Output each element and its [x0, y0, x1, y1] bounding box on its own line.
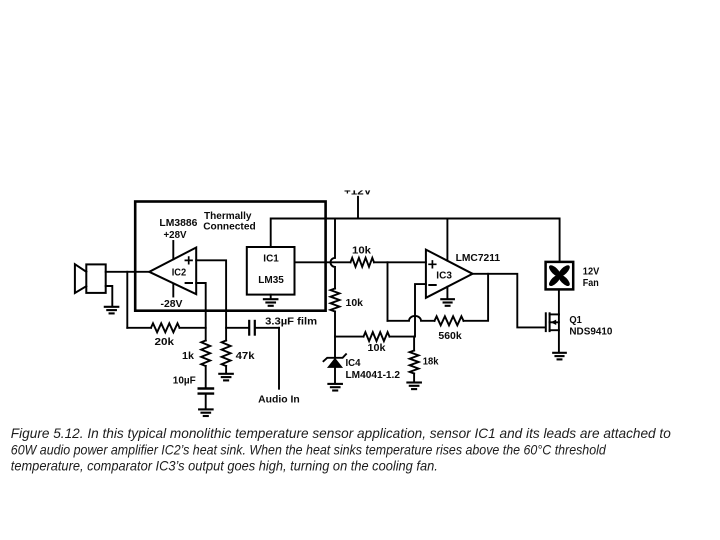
svg-text:+28V: +28V [164, 230, 187, 241]
12V fan (boxed motor) [546, 262, 574, 290]
ground (IC3) [441, 298, 454, 300]
resistor 18k [413, 337, 415, 351]
IC2 - input marker [186, 282, 192, 284]
svg-text:10µF: 10µF [173, 375, 196, 386]
svg-text:Thermally: Thermally [204, 211, 252, 222]
IC3 + input marker [429, 261, 436, 268]
svg-text:Q1: Q1 [569, 315, 582, 326]
svg-text:LM4041-1.2: LM4041-1.2 [346, 370, 401, 381]
wire: speaker to ground [106, 286, 113, 306]
svg-text:560k: 560k [438, 331, 462, 342]
svg-text:Fan: Fan [583, 278, 599, 289]
svg-text:IC4: IC4 [346, 358, 361, 369]
svg-text:NDS9410: NDS9410 [569, 326, 612, 337]
op-amp IC2 (LM3886 power amplifier) [149, 248, 196, 295]
temperature sensor IC1 (LM35) [247, 247, 295, 295]
+12V supply stub [357, 197, 359, 219]
wire: IC3 V- to ground [446, 287, 448, 299]
svg-text:Figure 5.12. In this typical m: Figure 5.12. In this typical monolithic … [11, 426, 671, 441]
svg-text:LM3886: LM3886 [159, 218, 197, 229]
resistor 10k (sensor signal) [351, 258, 375, 267]
svg-text:Audio In: Audio In [258, 395, 300, 406]
+28V supply stub [172, 241, 174, 259]
wire: IC2 - input down to feedback node [196, 283, 206, 341]
ground (IC4) [328, 383, 342, 385]
svg-text:20k: 20k [155, 337, 175, 348]
resistor 47k [222, 341, 231, 367]
capacitor 10uF [199, 387, 213, 389]
zener reference IC4 (LM4041-1.2) [334, 337, 336, 358]
svg-text:18k: 18k [423, 356, 439, 367]
svg-text:temperature, comparator IC3’s: temperature, comparator IC3’s output goe… [11, 458, 438, 473]
+12V net label (clipped at scan top edge) [344, 186, 372, 197]
ground (18k) [407, 381, 421, 383]
wire: IC3 V+ from rail [446, 219, 448, 261]
wire: output feedback tap down to 20k [126, 272, 128, 328]
svg-text:10k: 10k [352, 245, 371, 256]
resistor 10k (pull-up from +12V rail) [331, 219, 336, 289]
speaker LS1 [86, 264, 105, 293]
svg-text:LMC7211: LMC7211 [456, 253, 501, 264]
wire: IC2 + input down to bias node [196, 260, 226, 340]
wire: IC1 output to sensor resistor [295, 261, 351, 263]
resistor 560k (hysteresis) with hop over - input wire [388, 316, 435, 321]
node: Audio In [278, 328, 280, 389]
wire: IC3 output to MOSFET gate [473, 274, 545, 328]
svg-text:IC2: IC2 [172, 267, 187, 278]
IC3 - input marker [429, 284, 435, 286]
svg-text:LM35: LM35 [258, 275, 284, 286]
ground (47k) [219, 373, 233, 375]
-28V supply stub [172, 284, 174, 296]
svg-text:Connected: Connected [203, 222, 256, 233]
ground (Q1 source) [553, 352, 566, 354]
wire: +12V rail (from IC1 V+ pin across the top, down to fan) [271, 219, 560, 261]
wire: 10k to IC3 + input [374, 261, 426, 263]
wire: hysteresis tap down to 560k [387, 262, 389, 321]
resistor 10k (reference divider) [364, 332, 390, 341]
ground (10uF) [199, 408, 213, 410]
IC2 + input marker [185, 257, 192, 264]
thermal enclosure box [135, 202, 325, 311]
wire: comparator - input to reference divider [415, 284, 426, 337]
svg-text:IC1: IC1 [263, 253, 279, 264]
svg-text:10k: 10k [368, 343, 386, 354]
comparator IC3 (LMC7211) [426, 250, 473, 298]
resistor 1k [201, 341, 210, 367]
ground (speaker) [105, 306, 119, 308]
svg-text:10k: 10k [346, 298, 364, 309]
resistor 20k (feedback) [151, 323, 180, 332]
MOSFET Q1 (NDS9410) [558, 289, 560, 314]
wire: IC1 ground pin [270, 295, 272, 299]
svg-text:47k: 47k [236, 351, 255, 362]
svg-text:IC3: IC3 [436, 270, 452, 281]
svg-text:60W audio power amplifier IC2’: 60W audio power amplifier IC2’s heat sin… [11, 442, 606, 457]
svg-text:-28V: -28V [161, 299, 183, 310]
wire: reference node to divider [335, 336, 364, 338]
svg-text:1k: 1k [182, 351, 194, 362]
svg-text:3.3µF film: 3.3µF film [265, 316, 317, 327]
capacitor 3.3uF film [226, 327, 248, 329]
ground (IC1) [264, 298, 278, 300]
wire: speaker to IC2 output [106, 271, 150, 273]
svg-text:12V: 12V [583, 267, 600, 278]
